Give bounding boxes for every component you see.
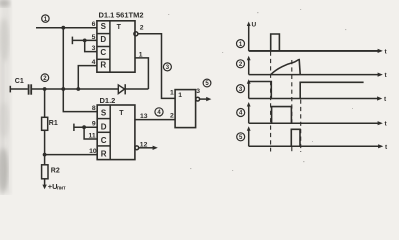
- svg-text:пит: пит: [57, 186, 66, 192]
- svg-text:13: 13: [140, 113, 148, 120]
- svg-text:D: D: [100, 35, 106, 44]
- svg-text:C1: C1: [15, 78, 24, 85]
- svg-text:T: T: [117, 24, 122, 31]
- svg-text:D1.1: D1.1: [99, 11, 115, 20]
- svg-text:S: S: [101, 109, 107, 118]
- svg-text:3: 3: [196, 88, 200, 95]
- svg-text:2: 2: [170, 113, 174, 120]
- svg-text:R: R: [101, 149, 107, 158]
- svg-text:C: C: [101, 136, 107, 145]
- svg-text:D1.2: D1.2: [100, 96, 116, 105]
- svg-text:1: 1: [139, 51, 143, 58]
- svg-text:5: 5: [92, 34, 96, 41]
- svg-text:561TM2: 561TM2: [116, 11, 144, 20]
- svg-text:C: C: [100, 48, 106, 57]
- svg-text:9: 9: [92, 121, 96, 128]
- svg-text:6: 6: [92, 21, 96, 28]
- svg-text:S: S: [101, 22, 107, 31]
- svg-text:4: 4: [92, 59, 96, 66]
- svg-text:3: 3: [92, 45, 96, 52]
- svg-text:R: R: [100, 61, 106, 70]
- svg-text:10: 10: [89, 148, 97, 155]
- svg-text:R2: R2: [51, 168, 60, 175]
- svg-text:1: 1: [170, 90, 174, 97]
- svg-text:U: U: [252, 22, 257, 29]
- svg-text:2: 2: [140, 25, 144, 32]
- svg-text:8: 8: [92, 105, 96, 112]
- svg-text:12: 12: [140, 141, 148, 148]
- svg-text:T: T: [119, 110, 124, 117]
- svg-text:1: 1: [178, 92, 182, 99]
- svg-text:11: 11: [89, 133, 96, 140]
- svg-text:D: D: [101, 122, 107, 131]
- svg-text:R1: R1: [49, 120, 58, 127]
